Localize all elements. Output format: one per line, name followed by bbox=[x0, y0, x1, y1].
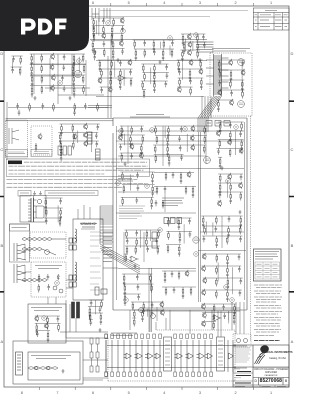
title block tolerance note text bbox=[235, 348, 251, 362]
resistor R113 bbox=[150, 274, 152, 283]
resistor R2 bbox=[113, 18, 115, 27]
transistor Q29 bbox=[203, 277, 207, 284]
transistor Q37 bbox=[160, 309, 164, 316]
wire rail mid band left row 4 bbox=[100, 86, 113, 88]
output module block B bbox=[217, 337, 225, 371]
wire rail rectifier caps row 1 bbox=[89, 299, 103, 301]
wire rail mid band center row 4 bbox=[142, 89, 146, 91]
vertical trunk wire B bbox=[110, 40, 112, 118]
capacitor C128 bbox=[223, 313, 226, 319]
vertical trunk wire A bbox=[107, 56, 109, 118]
line label box bbox=[10, 224, 30, 262]
module connector J10 bbox=[16, 352, 23, 375]
transistor Q2 bbox=[102, 32, 106, 39]
capacitor C207 bbox=[171, 271, 174, 277]
wire bbox=[47, 321, 49, 330]
central box inner wires 2 bbox=[124, 216, 244, 262]
PDF badge bbox=[0, 0, 89, 51]
RC string R171 C149 bbox=[45, 198, 47, 210]
wire transformer risers bbox=[78, 205, 90, 219]
wire bbox=[78, 57, 80, 73]
capacitor C153 bbox=[16, 103, 19, 109]
bias pot VR2 bbox=[151, 314, 156, 319]
resistor R6 bbox=[93, 33, 95, 42]
resistor R121 bbox=[167, 245, 169, 254]
transistor Q18 bbox=[191, 125, 195, 132]
wire bbox=[164, 126, 166, 138]
wire bbox=[205, 221, 207, 234]
wire rail input stage row 2 bbox=[92, 25, 125, 27]
capacitor C63 bbox=[217, 148, 220, 154]
wire rail eq ladder row 3 bbox=[125, 245, 160, 247]
designator circle IC20 bbox=[55, 281, 60, 286]
transistor Q25 bbox=[239, 182, 243, 189]
twisted pair wire lower bbox=[22, 248, 56, 282]
transistor Q32 bbox=[83, 131, 87, 138]
RC string R129 C112 bbox=[60, 150, 62, 162]
wire bbox=[169, 45, 171, 55]
ground G1 bbox=[94, 50, 97, 54]
capacitor C2 bbox=[102, 18, 105, 24]
wire bbox=[192, 41, 194, 51]
ground G7 bbox=[124, 162, 127, 166]
designator circle IC11 bbox=[116, 181, 121, 186]
designator circle IC10 bbox=[234, 125, 239, 130]
resistor R89 bbox=[216, 254, 218, 263]
transistor Q26 bbox=[218, 200, 222, 207]
wire bbox=[140, 230, 142, 248]
RC string R45 C37 bbox=[218, 60, 220, 72]
resistor R72 bbox=[219, 140, 221, 149]
wire harness bundle left of main board bbox=[100, 206, 113, 242]
main board right vertical rail bbox=[244, 122, 246, 300]
stamp circle 3 bbox=[204, 157, 211, 164]
wire rail low net 2 bbox=[162, 286, 196, 288]
capacitor C113 bbox=[57, 316, 60, 322]
RC string R205 C204 bbox=[192, 186, 194, 198]
header stack HD1 bbox=[88, 132, 93, 144]
RC string R125 C108 bbox=[59, 133, 61, 145]
resistor R63 bbox=[204, 136, 206, 145]
capacitor C47 bbox=[119, 144, 122, 150]
RC string R92 C79 bbox=[226, 266, 228, 278]
wire bbox=[217, 262, 219, 281]
resistor R93 bbox=[216, 278, 218, 287]
wire rail top driver row 1 bbox=[181, 33, 205, 35]
wire bbox=[77, 131, 79, 143]
wire bbox=[91, 132, 93, 152]
capacitor C16 bbox=[153, 49, 156, 55]
resistor R128 bbox=[73, 141, 75, 150]
wire rail right col upper row 1 bbox=[218, 121, 243, 123]
decoupling rail wire bbox=[8, 107, 108, 109]
wire rail mid band left row 2 bbox=[100, 68, 133, 70]
RC string R163 C142 bbox=[153, 81, 155, 93]
designator circle IC5 bbox=[58, 81, 63, 86]
resistor R136 bbox=[89, 313, 91, 322]
resistor R46 bbox=[219, 70, 221, 79]
capacitor C96 bbox=[136, 274, 139, 280]
capacitor C24 bbox=[63, 54, 66, 60]
RC string R141 C124 bbox=[141, 310, 143, 322]
resistor R164 bbox=[143, 90, 145, 99]
bottom module outer box bbox=[13, 341, 83, 384]
resistor R103 bbox=[126, 230, 128, 239]
zone number 6 top bbox=[88, 1, 98, 5]
resistor R166 bbox=[200, 60, 202, 69]
resistor trio R91 bbox=[58, 146, 71, 155]
RC string R153 C134 bbox=[110, 69, 112, 81]
power switch body bbox=[36, 206, 44, 218]
wire drops near badge corner bbox=[92, 8, 99, 22]
designator circle IC9 bbox=[183, 127, 188, 132]
RC string R7 C6 bbox=[111, 33, 113, 45]
bias pot VR1 bbox=[139, 308, 144, 313]
signal path wire bbox=[90, 39, 207, 41]
wire rail switch buffer row 2 bbox=[58, 132, 98, 134]
wire rail thermal bias row 3 bbox=[132, 317, 136, 319]
RC string R68 C56 bbox=[168, 155, 170, 167]
voltage chart table bbox=[255, 262, 280, 279]
designator circle IC14 bbox=[194, 252, 199, 257]
wire rail chassis circuits row 4 bbox=[218, 89, 245, 91]
transistor Q40 bbox=[202, 320, 206, 327]
caution text lines bbox=[9, 162, 148, 174]
designator circle IC8 bbox=[150, 128, 155, 133]
RC string R47 C39 bbox=[230, 70, 232, 82]
capacitor C141 bbox=[166, 73, 169, 79]
ground legend text bbox=[20, 192, 95, 194]
capacitor C84 bbox=[239, 290, 242, 296]
wire rail mid band center row 2 bbox=[143, 72, 169, 74]
wire rail input filter row 1 bbox=[12, 55, 23, 57]
output transistor Q30 bbox=[124, 353, 132, 359]
ribbon trunk continuation bbox=[198, 118, 208, 132]
resistor R158 bbox=[143, 64, 145, 73]
resistor R170 bbox=[190, 87, 192, 96]
resistor R78 bbox=[230, 183, 232, 192]
RC string R37 C31 bbox=[73, 75, 75, 87]
capacitor C42 bbox=[230, 90, 233, 96]
main pcb boundary box bbox=[113, 118, 247, 310]
RC string R9 C7 bbox=[92, 41, 94, 53]
power supply title bbox=[35, 266, 62, 269]
resistor R14 bbox=[134, 40, 136, 49]
resistor R111 bbox=[125, 254, 127, 263]
resistor R22 bbox=[197, 34, 199, 43]
wire bbox=[150, 230, 152, 241]
zone number 3 bottom bbox=[195, 391, 205, 395]
drawing title line 1 bbox=[253, 369, 289, 372]
RC string R51 C43 bbox=[217, 100, 219, 112]
resistor R64 bbox=[154, 145, 156, 154]
capacitor C30 bbox=[61, 75, 64, 81]
ground G6 bbox=[69, 96, 72, 100]
fuse block F1 bbox=[95, 287, 107, 295]
RC string R100 C88 bbox=[152, 185, 154, 197]
wire bbox=[182, 62, 184, 80]
wire rail low net bbox=[162, 270, 196, 272]
relay K1 contacts row bbox=[206, 121, 230, 127]
capacitor C135 bbox=[129, 69, 132, 75]
wire bbox=[186, 134, 188, 152]
RC string R69 C58 bbox=[219, 122, 221, 134]
wire rail tone ladder row 2 bbox=[134, 48, 174, 50]
resistor R32 bbox=[41, 65, 43, 74]
tone circuit text bbox=[118, 176, 134, 181]
zone number 3 top bbox=[195, 1, 205, 5]
capacitor C131 bbox=[47, 284, 50, 290]
RC string R71 C60 bbox=[229, 131, 231, 143]
wire rail mid band center row 3 bbox=[141, 80, 168, 82]
capacitor C33 bbox=[63, 86, 66, 92]
wire bbox=[72, 62, 74, 76]
wire rail output protection row 3 bbox=[202, 320, 216, 322]
zone tick marks top/bottom bbox=[40, 3, 254, 390]
wire rail mosfet drivers row 2 bbox=[202, 265, 242, 267]
wire bbox=[98, 18, 100, 35]
transistor Q45 bbox=[199, 68, 203, 75]
designator circle IC18 bbox=[158, 228, 163, 233]
ribbon left stubs bbox=[206, 60, 214, 84]
resistor R60 bbox=[204, 126, 206, 135]
option box labels bbox=[8, 151, 49, 154]
capacitor C12 bbox=[143, 40, 146, 46]
RC string R54 C46 bbox=[129, 135, 131, 147]
wire rail right col upper row 2 bbox=[216, 130, 242, 132]
transistor Q27 bbox=[202, 253, 206, 260]
capacitor C36 bbox=[11, 67, 14, 73]
wire rail input stage row 3 bbox=[92, 32, 124, 34]
resistor R95 bbox=[216, 290, 218, 299]
wire rail right col upper row 4 bbox=[217, 147, 244, 149]
transistor Q28 bbox=[202, 265, 206, 272]
capacitor C67 bbox=[219, 192, 222, 198]
wire right risers bbox=[236, 302, 244, 334]
stamp circle 4 bbox=[193, 237, 199, 243]
resistor R97 bbox=[122, 172, 124, 181]
wire bbox=[241, 63, 243, 92]
RC string R49 C41 bbox=[241, 80, 243, 92]
main board internal rail 3 bbox=[116, 212, 196, 214]
output module block A bbox=[164, 337, 172, 371]
fuse and switch block box bbox=[20, 196, 46, 223]
RC string R133 C116 bbox=[47, 331, 49, 343]
capacitor C57 bbox=[180, 155, 183, 161]
diode CR1 bbox=[57, 274, 59, 280]
capacitor C72 bbox=[215, 226, 218, 232]
capacitor C35 bbox=[12, 56, 15, 62]
designator circle IC19 bbox=[42, 316, 47, 321]
transistor Q11 bbox=[229, 59, 233, 66]
wire rail top driver row 3 bbox=[180, 49, 199, 51]
RC string R81 C69 bbox=[202, 216, 204, 228]
RC string R29 C25 bbox=[73, 54, 75, 66]
RC string R131 C114 bbox=[36, 323, 38, 335]
transistor Q36 bbox=[160, 301, 164, 308]
wire rail mid bias row 2 bbox=[166, 230, 192, 232]
capacitor C80 bbox=[238, 266, 241, 272]
resistor R57 bbox=[121, 153, 123, 162]
resistor R8 bbox=[121, 33, 123, 42]
capacitor C157 bbox=[73, 110, 76, 116]
electrolytic capacitor bank bbox=[72, 302, 80, 318]
transistor Q15 bbox=[118, 134, 122, 141]
resistor R106 bbox=[136, 238, 138, 247]
wire bbox=[156, 307, 158, 321]
main board internal rail 2 bbox=[116, 168, 244, 170]
wire rail mosfet drivers row 4 bbox=[202, 289, 242, 291]
wire rail output protection row 1 bbox=[201, 303, 236, 305]
vertical trunk pair bottom left bbox=[149, 268, 152, 332]
wire rail mid band right row 2 bbox=[178, 68, 203, 70]
wire rail mid band left row 3 bbox=[98, 77, 133, 79]
resistor R177 bbox=[74, 103, 76, 112]
RC string R11 C9 bbox=[94, 48, 96, 60]
wire rail chassis circuits row 1 bbox=[217, 59, 245, 61]
chassis note text bbox=[212, 49, 250, 52]
title block approval signatures bbox=[235, 372, 251, 384]
resistor R178 bbox=[97, 103, 99, 112]
transistor Q17 bbox=[139, 152, 143, 159]
wire rail bias network row 3 bbox=[202, 235, 243, 237]
zone letter A left bbox=[0, 340, 7, 345]
transistor Q34 bbox=[35, 315, 39, 322]
wire rail right col mid row 2 bbox=[218, 182, 242, 184]
wire bbox=[183, 224, 185, 243]
transformer feed wires bbox=[66, 232, 118, 288]
header stack HD2 bbox=[96, 149, 101, 160]
wire rail mid band right row 1 bbox=[177, 59, 203, 61]
wire bbox=[228, 312, 230, 324]
RC string R94 C81 bbox=[227, 278, 229, 290]
wire rail input select parts row 3 bbox=[44, 217, 62, 219]
module ground bbox=[62, 369, 65, 373]
RC string R56 C48 bbox=[140, 144, 142, 156]
capacitor C27 bbox=[63, 65, 66, 71]
central box inner wires bbox=[118, 126, 206, 212]
resistor R16 bbox=[163, 40, 165, 49]
chassis circled stamp upper bbox=[238, 59, 245, 66]
wire rail preamp interior row 1 bbox=[35, 315, 60, 317]
capacitor C38 bbox=[242, 60, 245, 66]
caption box signal strength bbox=[6, 150, 28, 157]
resistor R43 bbox=[20, 56, 22, 65]
ground G9 bbox=[239, 210, 242, 214]
PDF badge letter D bbox=[38, 19, 52, 35]
twisted pair wire upper bbox=[22, 238, 66, 241]
RC string R210 C209 bbox=[182, 287, 184, 299]
zone number 2 bottom bbox=[231, 391, 241, 395]
output stage dashed box bbox=[108, 330, 235, 381]
wire bbox=[150, 280, 152, 291]
main board left vertical rail bbox=[116, 126, 118, 300]
wire rail stage A row 1 bbox=[120, 125, 144, 127]
wire bbox=[95, 20, 97, 34]
capacitor C115 bbox=[36, 331, 39, 337]
title block frame bbox=[233, 345, 289, 387]
resistor R82 bbox=[216, 216, 218, 225]
ground G4 bbox=[199, 58, 202, 62]
drawing title line 3 bbox=[253, 375, 289, 377]
resistor R117 bbox=[168, 218, 170, 227]
capacitor C203 bbox=[164, 186, 167, 192]
capacitor C65 bbox=[240, 174, 243, 180]
note text lines below caution bbox=[7, 180, 146, 188]
RC string R13 C10 bbox=[112, 48, 114, 60]
RC string R77 C66 bbox=[219, 183, 221, 195]
wire rail output protection row 2 bbox=[202, 312, 236, 314]
RC string R144 C127 bbox=[233, 304, 235, 316]
resistor R115 bbox=[151, 284, 153, 293]
RC string R5 C4 bbox=[111, 26, 113, 38]
RC string R62 C52 bbox=[167, 136, 169, 148]
designator circle IC7 bbox=[119, 129, 124, 134]
capacitor C139 bbox=[165, 64, 168, 70]
zone boundary ticks left/right bbox=[0, 101, 294, 292]
resistor R160 bbox=[144, 73, 146, 82]
resistor R124 bbox=[72, 124, 74, 133]
wire rail stage A row 2 bbox=[118, 134, 144, 136]
RC string R173 C151 bbox=[60, 208, 62, 220]
resistor R36 bbox=[41, 75, 43, 84]
transistor Q202 bbox=[185, 270, 189, 277]
zone number 8 bottom bbox=[17, 391, 27, 395]
resistor R80 bbox=[240, 192, 242, 201]
output resistor footers bottom group 2 bbox=[174, 372, 213, 377]
transistor Q33 bbox=[84, 140, 88, 147]
main board internal rail 1 bbox=[116, 130, 244, 132]
ground legend symbols bbox=[33, 191, 42, 196]
wire bbox=[234, 131, 236, 155]
capacitor C137 bbox=[100, 87, 103, 93]
preamp title bbox=[31, 308, 62, 311]
RC string R167 C146 bbox=[189, 69, 191, 81]
wire rail chassis circuits row 5 bbox=[216, 99, 233, 101]
ground G11 bbox=[99, 328, 102, 332]
RC string R123 C106 bbox=[60, 124, 62, 136]
transistor Q3 bbox=[119, 40, 123, 47]
line input dashed box bbox=[30, 232, 66, 258]
wire rail mid band left row 1 bbox=[98, 59, 132, 61]
transformer T1 box bbox=[73, 219, 103, 300]
company name bbox=[263, 352, 293, 355]
output array extra footer bbox=[105, 372, 108, 377]
resistor R203 bbox=[156, 186, 158, 195]
resistor R86 bbox=[239, 226, 241, 235]
input jack J2 bbox=[14, 243, 26, 261]
wire bottom link bbox=[83, 359, 108, 361]
capacitor C53 bbox=[178, 136, 181, 142]
riser wires to board bbox=[202, 96, 211, 118]
wire bbox=[212, 222, 214, 236]
RC string R127 C110 bbox=[60, 141, 62, 153]
wire rail chassis circuits row 2 bbox=[218, 69, 245, 71]
resistor R108 bbox=[126, 246, 128, 255]
capacitor C89 bbox=[136, 197, 139, 203]
dashed option box left upper bbox=[6, 120, 53, 158]
transistor Q9 bbox=[51, 74, 55, 81]
wire rail thermal bias row 1 bbox=[131, 301, 164, 303]
ribbon feed bundle top bbox=[196, 42, 214, 52]
RC string R27 C23 bbox=[31, 54, 33, 66]
wire rail right col mid row 1 bbox=[218, 173, 243, 175]
transistor Q13 bbox=[218, 89, 222, 96]
RC string R118 C101 bbox=[178, 218, 180, 230]
wire rail right col upper row 5 bbox=[218, 156, 222, 158]
capacitor C156 bbox=[84, 103, 87, 109]
RC string R116 C99 bbox=[124, 294, 126, 306]
